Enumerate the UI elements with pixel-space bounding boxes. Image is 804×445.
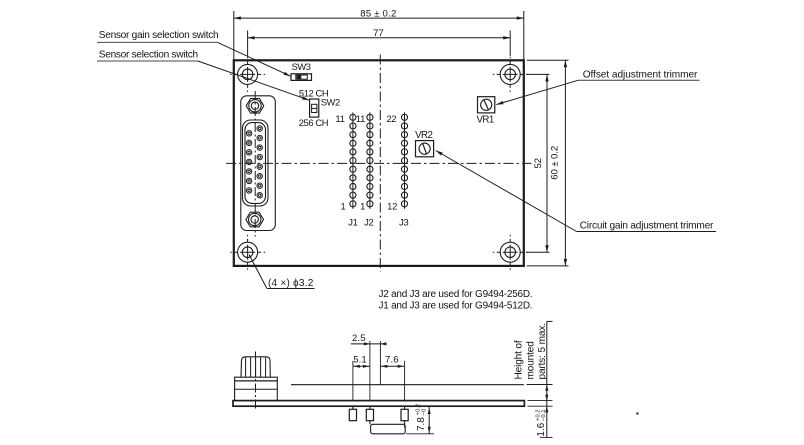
mounting hole bottom-left (3.2 dia): [230, 235, 265, 270]
leader line to SW2: [198, 61, 309, 100]
pin header J2 (11 pins): [367, 112, 373, 209]
text Height of mounted parts 5 max: [514, 323, 548, 379]
dimension text 7.8 +0.2/-0: [416, 404, 428, 431]
horizontal center line of board: [226, 162, 532, 164]
svg-text:Sensor gain selection switch: Sensor gain selection switch: [99, 30, 219, 41]
mounting hole bottom-right (3.2 dia): [493, 235, 528, 270]
svg-text:11: 11: [335, 113, 344, 124]
dimension line 60 +/- 0.2: [564, 60, 566, 266]
svg-text:−0: −0: [421, 408, 427, 415]
svg-text:Height of: Height of: [514, 340, 525, 379]
svg-text:J1: J1: [348, 217, 357, 228]
dimension 60 +/- 0.2 extension lines: [527, 59, 569, 61]
svg-text:Sensor selection switch: Sensor selection switch: [99, 50, 198, 61]
trimmer VR1 (offset adjustment): [478, 97, 495, 113]
svg-text:−0.1: −0.1: [541, 409, 547, 421]
D-sub insert inner shell: [245, 123, 266, 204]
svg-text:Circuit gain adjustment trimme: Circuit gain adjustment trimmer: [580, 220, 714, 231]
svg-text:VR2: VR2: [415, 130, 432, 141]
side view D-sub flange plate: [235, 377, 278, 381]
D-sub vertical center line: [254, 91, 256, 237]
leader underline (sensor selection): [97, 60, 198, 62]
leader line to VR2: [436, 151, 577, 232]
svg-text:VR1: VR1: [477, 115, 494, 126]
svg-text:J3: J3: [399, 217, 408, 228]
extension line J2 pin: [369, 341, 371, 401]
svg-text:60 ± 0.2: 60 ± 0.2: [550, 146, 561, 180]
switch SW3 (sensor gain selection): [291, 74, 312, 81]
mating connector outline below pins: [371, 424, 406, 434]
vertical center line of board: [379, 55, 381, 272]
svg-text:J2 and J3 are used for G9494-2: J2 and J3 are used for G9494-256D.: [379, 289, 533, 300]
svg-text:77: 77: [373, 28, 383, 39]
svg-text:2.5: 2.5: [352, 333, 366, 344]
D-sub pins (15): [246, 126, 262, 198]
dimension line 7.8: [428, 407, 430, 434]
leader underline (circuit gain): [577, 231, 717, 233]
stray printing dot: [636, 412, 638, 414]
leader line to SW3: [218, 42, 291, 76]
height-of-parts dimension vertical line: [546, 321, 548, 437]
switch SW2 (sensor selection): [310, 99, 319, 117]
trimmer VR2 (circuit gain adjustment): [416, 141, 434, 157]
svg-text:J1 and J3 are used for G9494-5: J1 and J3 are used for G9494-512D.: [379, 301, 533, 312]
dimension line 85 +/- 0.2: [234, 17, 524, 19]
mounting hole top-right (3.2 dia): [493, 57, 528, 92]
pin header J1 (11 pins): [350, 112, 356, 209]
extension line 2.5 right: [379, 341, 381, 385]
svg-text:11: 11: [356, 113, 365, 124]
leader underline (sensor gain): [97, 41, 218, 43]
side view D-sub ribbed shell: [241, 357, 270, 377]
dimension 77 extension lines: [247, 31, 249, 57]
D-sub hex nut bottom: [246, 212, 264, 227]
dimension text 1.6 +0.2/-0.1: [535, 409, 547, 436]
extension line 5max: [527, 384, 553, 386]
D-sub insert outer shell: [243, 120, 269, 206]
svg-text:(4 ×) ϕ3.2: (4 ×) ϕ3.2: [268, 278, 314, 289]
dimension line 7.6: [380, 365, 404, 367]
dimension line 2.5: [351, 343, 383, 345]
extension line board top: [528, 400, 553, 402]
extension line J1 pin: [352, 361, 354, 401]
side view pin of J1: [349, 406, 356, 420]
svg-text:Offset adjustment trimmer: Offset adjustment trimmer: [583, 69, 698, 80]
svg-text:mounted: mounted: [525, 341, 536, 379]
svg-text:52: 52: [533, 158, 544, 168]
svg-text:SW3: SW3: [292, 61, 311, 72]
svg-text:SW2: SW2: [321, 96, 340, 107]
svg-text:7.6: 7.6: [385, 355, 399, 366]
dimension 52 extension lines: [526, 73, 549, 75]
svg-text:12: 12: [387, 200, 397, 211]
D-sub hex nut top: [246, 99, 264, 114]
dimension line 5.1: [353, 365, 370, 367]
svg-text:256 CH: 256 CH: [299, 117, 328, 128]
connector D-sub 15 flange: [241, 96, 275, 231]
pin header J3 (11 pins): [401, 112, 407, 209]
svg-text:1: 1: [340, 200, 345, 211]
side view connector center line: [255, 352, 257, 411]
svg-text:7.8: 7.8: [416, 417, 427, 431]
svg-text:1: 1: [360, 200, 365, 211]
leader line to bottom-left hole: [249, 255, 267, 289]
board outline (top view PCB 85 x 60): [234, 60, 524, 266]
leader underline (4x3.2): [267, 288, 315, 290]
dimension line 52: [546, 74, 548, 252]
bottom tick 1.6: [540, 436, 553, 438]
extension line board bottom: [528, 405, 553, 407]
leader underline (offset): [578, 79, 700, 81]
dimension 7.8 extension: [406, 433, 434, 435]
side view D-sub body block: [235, 381, 278, 401]
svg-text:22: 22: [386, 113, 396, 124]
dimension 85 +/- 0.2 extension lines: [233, 11, 235, 60]
svg-text:parts: 5 max.: parts: 5 max.: [537, 323, 548, 379]
dimension line 77: [248, 37, 511, 39]
side view board bar: [233, 401, 524, 407]
svg-text:1.6: 1.6: [536, 422, 547, 436]
svg-text:85 ± 0.2: 85 ± 0.2: [360, 9, 396, 20]
svg-text:J2: J2: [364, 217, 373, 228]
component height line (5 max): [291, 384, 524, 386]
svg-text:5.1: 5.1: [353, 355, 367, 366]
leader line to VR1: [496, 80, 578, 104]
side view pin of J3: [401, 406, 408, 427]
mounting hole top-left (3.2 dia): [230, 57, 265, 92]
extension line J3 pin: [404, 361, 406, 401]
side view pin of J2: [366, 406, 373, 424]
